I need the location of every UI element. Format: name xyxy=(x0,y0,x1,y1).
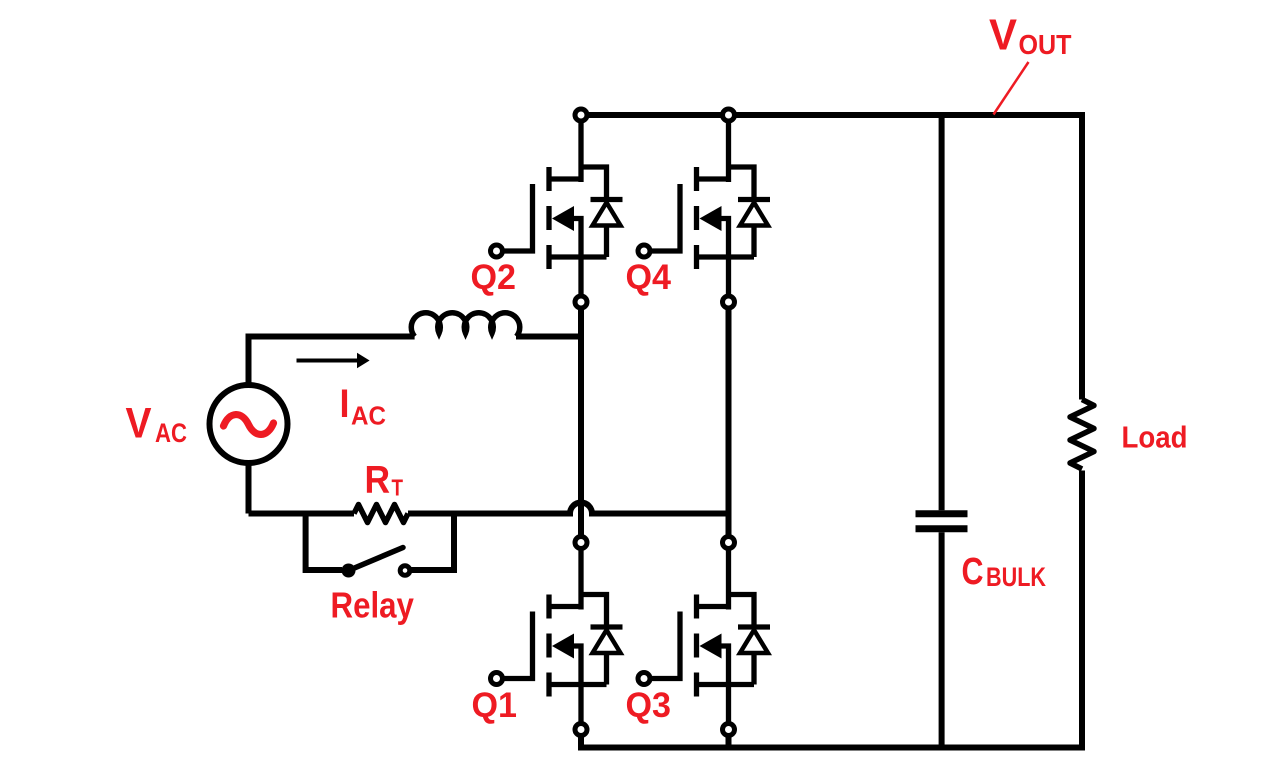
svg-text:AC: AC xyxy=(351,401,386,431)
svg-text:R: R xyxy=(365,459,391,502)
svg-text:BULK: BULK xyxy=(986,562,1046,592)
svg-text:V: V xyxy=(989,11,1018,60)
svg-text:Q4: Q4 xyxy=(626,258,672,297)
svg-text:T: T xyxy=(392,475,404,501)
svg-text:Load: Load xyxy=(1122,420,1188,455)
svg-text:I: I xyxy=(340,382,350,426)
svg-text:V: V xyxy=(126,400,152,448)
svg-text:Relay: Relay xyxy=(331,584,414,625)
svg-text:C: C xyxy=(962,551,984,593)
svg-text:Q1: Q1 xyxy=(472,686,518,725)
svg-text:OUT: OUT xyxy=(1019,29,1072,60)
svg-text:Q3: Q3 xyxy=(626,686,672,725)
svg-text:AC: AC xyxy=(155,418,187,448)
svg-text:Q2: Q2 xyxy=(471,258,517,297)
